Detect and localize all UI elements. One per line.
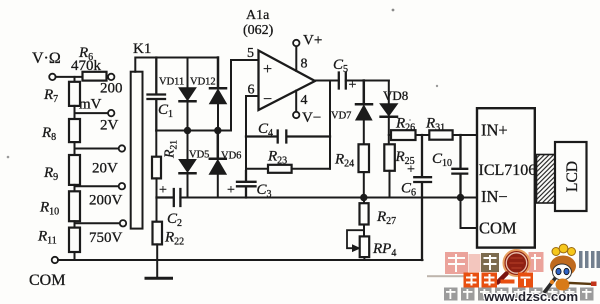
capacitor C1 <box>148 58 166 131</box>
svg-text:5: 5 <box>247 46 254 61</box>
capacitor C2 <box>157 189 181 206</box>
terminal 20V <box>119 145 125 151</box>
svg-text:4: 4 <box>301 93 308 108</box>
svg-text:8: 8 <box>301 57 308 72</box>
terminal V·Ω <box>49 74 55 80</box>
resistor R22 <box>156 198 158 222</box>
scan speck <box>392 9 395 12</box>
svg-text:20V: 20V <box>92 161 118 177</box>
capacitor C6 <box>414 135 431 260</box>
wire pin4 to V- <box>295 91 297 112</box>
svg-text:(062): (062) <box>243 23 274 38</box>
wire VD bottom line to pin5 <box>156 60 258 131</box>
svg-text:COM: COM <box>29 272 65 289</box>
svg-text:www.dzsc.com: www.dzsc.com <box>483 289 578 304</box>
wire output to feedback <box>329 81 331 169</box>
svg-text:750V: 750V <box>89 230 123 246</box>
resistor R24 <box>359 144 370 172</box>
svg-text:mV: mV <box>79 97 102 113</box>
wire R6 to 200 terminal <box>107 76 109 78</box>
resistor R11 <box>69 228 80 252</box>
svg-text:LCD: LCD <box>564 161 581 192</box>
wire COM drop <box>461 198 478 229</box>
terminal V+ <box>293 40 299 46</box>
svg-text:+: + <box>159 183 167 198</box>
node junction C10 bottom <box>457 194 464 201</box>
resistor R23 <box>246 168 330 170</box>
resistor R26 <box>389 134 391 136</box>
capacitor C5 <box>339 73 346 89</box>
resistor R27 <box>363 198 365 204</box>
svg-text:VD8: VD8 <box>383 88 408 103</box>
svg-text:V·Ω: V·Ω <box>32 50 61 67</box>
switch K1 <box>131 72 143 229</box>
wire R9 to R10 with 200V tap <box>75 185 119 191</box>
svg-text:+: + <box>263 61 272 78</box>
capacitor C10 <box>452 135 467 198</box>
svg-text:IN+: IN+ <box>481 121 508 140</box>
svg-text:−: − <box>263 91 272 108</box>
resistor R8 <box>69 119 80 142</box>
resistor R25 <box>384 144 395 171</box>
svg-text:VD11: VD11 <box>159 77 184 88</box>
wire R7 to R8 with 2V tap <box>75 106 108 119</box>
terminal V- <box>293 112 299 118</box>
terminal COM <box>52 257 58 263</box>
svg-text:V−: V− <box>302 110 321 126</box>
resistor R6 <box>83 72 107 81</box>
svg-text:VD12: VD12 <box>190 77 216 88</box>
resistor R9 <box>69 155 80 185</box>
svg-text:IN−: IN− <box>481 187 508 206</box>
svg-text:VD7: VD7 <box>331 111 351 122</box>
wire pin6 feedback rail <box>246 96 259 171</box>
svg-text:2V: 2V <box>100 118 119 134</box>
svg-text:VD5: VD5 <box>189 150 209 161</box>
potentiometer RP4 <box>360 236 370 257</box>
wire R8 to R9 with 20V tap <box>75 142 119 155</box>
svg-text:+: + <box>407 163 415 178</box>
svg-text:200: 200 <box>100 81 123 97</box>
wire COM ground rail <box>58 259 422 261</box>
wire R31 to IN+ <box>453 134 477 136</box>
capacitor C4 <box>246 131 330 143</box>
wire C5 to VD8 <box>346 80 389 82</box>
svg-text:A1a: A1a <box>246 8 270 23</box>
svg-text:470k: 470k <box>71 58 102 74</box>
op-amp A1a <box>259 51 316 111</box>
watermark <box>427 244 600 304</box>
wire op-amp output <box>315 80 339 82</box>
node junction R27 top <box>360 194 367 201</box>
node junction VD11 <box>184 127 191 134</box>
svg-text:K1: K1 <box>133 41 151 57</box>
resistor R7 <box>69 82 80 106</box>
terminal 200V <box>119 183 125 189</box>
terminal 2V <box>108 110 114 116</box>
wire analog common rail <box>180 197 477 199</box>
wire R22 to ground <box>156 244 158 278</box>
svg-text:ICL7106: ICL7106 <box>479 162 537 179</box>
resistor R21 <box>155 131 157 157</box>
wire R11 to COM rail <box>74 252 76 260</box>
IC ICL7106 <box>477 108 535 247</box>
ground <box>146 277 172 280</box>
connector hatch block <box>537 155 556 204</box>
display LCD <box>555 142 587 211</box>
node junction VD12 <box>214 127 221 134</box>
terminal 200mV <box>108 74 114 80</box>
terminal 750V <box>120 220 126 226</box>
svg-text:200V: 200V <box>89 193 123 209</box>
wire pin8 to V+ <box>295 46 297 71</box>
resistor R10 <box>69 191 80 221</box>
svg-text:COM: COM <box>479 219 517 238</box>
wire node to R7 <box>74 77 76 82</box>
wire K1 top line <box>135 58 218 72</box>
wire R26 to R31 <box>416 134 430 136</box>
svg-text:V+: V+ <box>303 33 322 49</box>
wire input node to R6 and R7 <box>56 76 83 78</box>
svg-text:+: + <box>227 183 235 198</box>
resistor R31 <box>429 130 452 139</box>
wire R10 to R11 with 750V tap <box>75 221 120 227</box>
capacitor C3 <box>237 171 256 198</box>
